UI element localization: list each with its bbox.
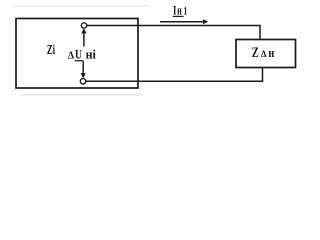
svg-text:1: 1 — [184, 3, 188, 17]
terminal bottom — [80, 79, 85, 84]
label ΔUнi — [68, 47, 96, 62]
wire top — [87, 26, 260, 40]
svg-text:Zi: Zi — [47, 42, 56, 57]
scan ghost line bottom — [20, 94, 142, 96]
wire bottom — [86, 68, 263, 82]
svg-text:Δ: Δ — [261, 49, 267, 59]
svg-text:нi: нi — [86, 48, 97, 62]
svg-text:Δ: Δ — [68, 50, 74, 62]
svg-text:н: н — [268, 46, 274, 60]
label Iн1 — [173, 2, 188, 17]
svg-text:Z: Z — [252, 45, 259, 61]
load box ZΔн — [236, 40, 296, 68]
voltage arrow down — [81, 61, 86, 78]
terminal top — [81, 23, 86, 28]
source box Zi — [16, 19, 138, 89]
current arrow Iн1 — [160, 19, 208, 24]
label ZΔн — [252, 45, 274, 61]
svg-text:U: U — [75, 47, 82, 62]
voltage arrow up — [81, 28, 86, 46]
svg-text:н: н — [177, 3, 182, 17]
scan ghost line top — [12, 5, 150, 7]
svg-text:I: I — [173, 2, 176, 17]
